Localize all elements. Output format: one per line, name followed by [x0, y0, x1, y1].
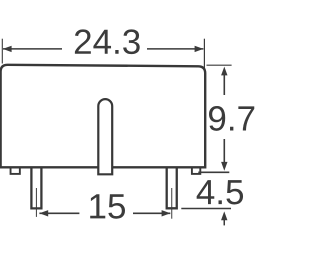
extension line pin tips (right) [181, 208, 231, 210]
arrowhead 4.5 up [221, 211, 227, 220]
arrowhead 9.7 up [221, 67, 227, 76]
label 4.5 [197, 180, 243, 204]
relay body outline [1, 65, 206, 168]
dimension arrow 4.5 (below, pointing up) [223, 218, 225, 225]
extension line seating plane (height dim bottom) [198, 171, 229, 173]
mounting slot (rounded top, open bottom) [98, 99, 112, 174]
dimension line 24.3 right segment [147, 48, 203, 50]
standoff tab left [11, 166, 20, 174]
pin 1 (left lead) [31, 166, 41, 208]
label 9.7 [209, 106, 254, 131]
label 24.3 [75, 29, 140, 54]
dimension line 15 left segment [39, 212, 79, 214]
arrowhead 24.3 right [195, 46, 204, 52]
arrowhead 15 left [39, 210, 48, 216]
center line right pin [171, 188, 173, 219]
arrowhead 24.3 left [3, 46, 12, 52]
dimension line 9.7 lower shaft [223, 139, 225, 164]
dimension line 24.3 left segment [3, 48, 62, 50]
dimension line 15 right segment [133, 212, 170, 214]
center line left pin [35, 188, 37, 217]
pin 2 (right lead) [167, 166, 177, 208]
extension line right (width dim) [203, 39, 205, 69]
standoff tab right [192, 166, 200, 174]
arrowhead 9.7 down [221, 162, 227, 171]
extension line left (width dim) [1, 39, 3, 64]
arrowhead 15 right [162, 210, 171, 216]
label 15 [90, 194, 125, 218]
dimension line 9.7 upper shaft [223, 74, 225, 95]
extension line top right (height dim, body top level) [207, 64, 232, 66]
